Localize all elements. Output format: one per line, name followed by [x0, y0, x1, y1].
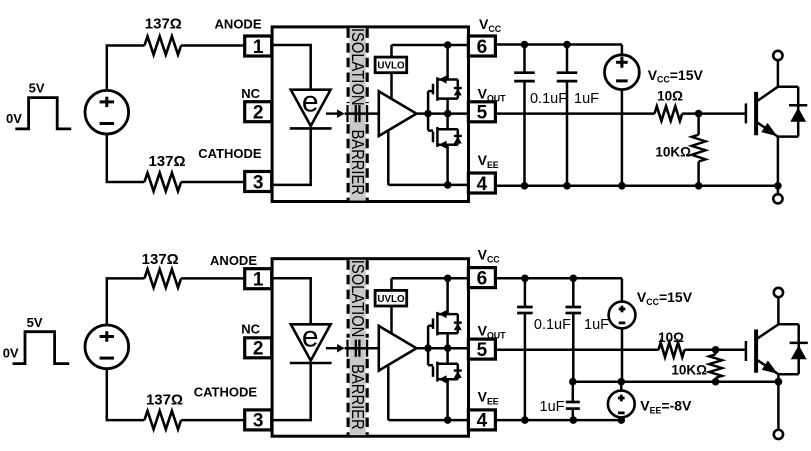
svg-text:4: 4 [477, 411, 488, 432]
svg-text:0V: 0V [3, 346, 19, 361]
svg-text:VEE: VEE [478, 389, 499, 407]
svg-text:1: 1 [253, 37, 264, 58]
svg-text:1uF: 1uF [540, 399, 565, 415]
svg-text:137Ω: 137Ω [146, 391, 183, 408]
svg-text:5V: 5V [27, 315, 43, 330]
svg-text:4: 4 [477, 174, 488, 195]
svg-text:6: 6 [477, 37, 488, 58]
svg-text:137Ω: 137Ω [142, 251, 179, 268]
svg-text:e: e [302, 86, 319, 119]
svg-text:e: e [302, 320, 319, 353]
svg-text:VEE: VEE [478, 152, 499, 170]
svg-text:0V: 0V [6, 111, 22, 126]
svg-text:VEE=-8V: VEE=-8V [640, 398, 692, 416]
svg-text:VCC=15V: VCC=15V [637, 289, 693, 307]
svg-text:5: 5 [477, 103, 488, 124]
svg-text:5V: 5V [29, 81, 45, 96]
svg-text:CATHODE: CATHODE [194, 384, 258, 399]
svg-text:ANODE: ANODE [215, 16, 262, 31]
svg-text:6: 6 [477, 268, 488, 289]
svg-text:0.1uF: 0.1uF [534, 317, 571, 333]
svg-text:1uF: 1uF [584, 317, 609, 333]
svg-text:VCC: VCC [478, 247, 501, 265]
svg-text:137Ω: 137Ω [145, 15, 182, 32]
svg-text:3: 3 [253, 411, 264, 432]
svg-text:ISOLATION: ISOLATION [348, 28, 368, 106]
svg-text:UVLO: UVLO [377, 61, 405, 72]
svg-text:BARRIER: BARRIER [348, 129, 368, 195]
svg-text:NC: NC [241, 322, 260, 337]
svg-text:VCC: VCC [479, 16, 502, 34]
svg-text:2: 2 [253, 339, 264, 360]
svg-text:1: 1 [253, 270, 264, 291]
svg-text:10KΩ: 10KΩ [655, 144, 691, 159]
svg-text:0.1uF: 0.1uF [530, 91, 567, 107]
svg-text:10Ω: 10Ω [657, 88, 683, 103]
svg-text:10Ω: 10Ω [658, 330, 684, 345]
svg-text:VCC=15V: VCC=15V [648, 67, 704, 85]
svg-text:3: 3 [253, 172, 264, 193]
svg-text:NC: NC [241, 86, 260, 101]
svg-text:10KΩ: 10KΩ [671, 363, 707, 378]
svg-text:ANODE: ANODE [210, 253, 257, 268]
svg-text:CATHODE: CATHODE [198, 146, 262, 161]
svg-text:UVLO: UVLO [377, 294, 405, 305]
svg-text:VOUT: VOUT [478, 323, 507, 341]
svg-text:BARRIER: BARRIER [348, 364, 368, 430]
svg-text:1uF: 1uF [574, 91, 599, 107]
svg-text:2: 2 [253, 103, 264, 124]
svg-text:ISOLATION: ISOLATION [348, 260, 368, 338]
svg-text:5: 5 [477, 340, 488, 361]
svg-text:VOUT: VOUT [478, 86, 507, 104]
svg-text:137Ω: 137Ω [148, 153, 185, 170]
